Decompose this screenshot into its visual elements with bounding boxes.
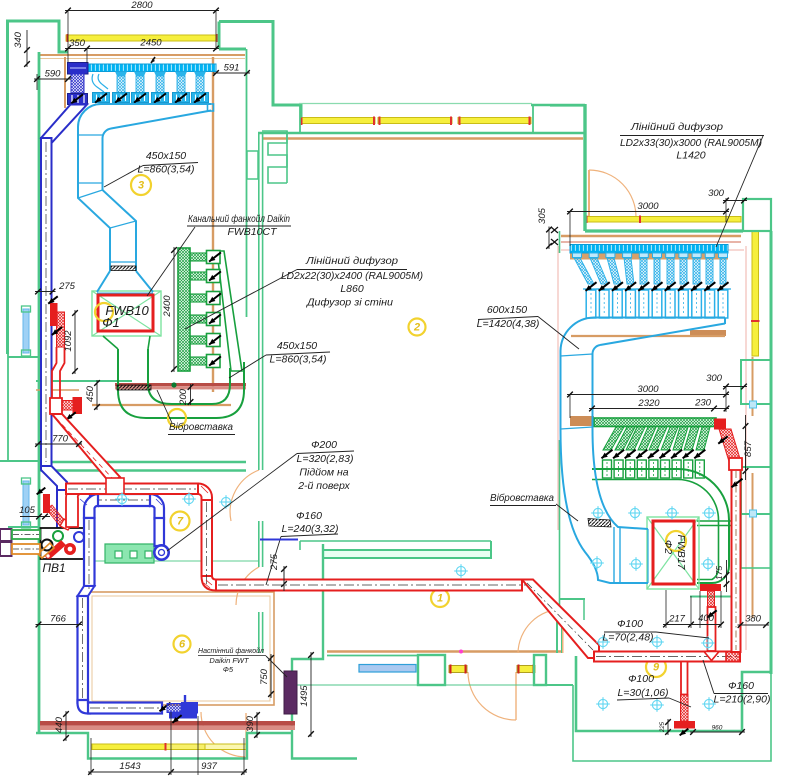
wall corridor vertical x246 bbox=[246, 49, 248, 317]
black flex vibro band on U duct bbox=[117, 385, 151, 390]
svg-text:L=30(1,06): L=30(1,06) bbox=[617, 687, 668, 699]
wall middle room bottom thin bbox=[300, 540, 491, 542]
thin threshold line y685 bbox=[292, 684, 418, 686]
red vertical main right bbox=[732, 469, 741, 652]
svg-text:2320: 2320 bbox=[637, 398, 660, 409]
cyan branch R11 bbox=[719, 253, 728, 258]
tan ceiling line top-left room bbox=[39, 54, 245, 56]
svg-text:LD2x22(30)x2400 (RAL9005M): LD2x22(30)x2400 (RAL9005M) bbox=[281, 270, 423, 282]
fancoil FWB10 unit bbox=[92, 291, 161, 336]
cyan branch R10 bbox=[705, 253, 714, 258]
dim 750 bbox=[270, 655, 272, 697]
svg-text:Підйом на: Підйом на bbox=[299, 467, 348, 479]
door posts on bottom wall bbox=[418, 655, 445, 685]
PV1 green intake duct bbox=[12, 530, 40, 539]
sprinkler symbol (672,513) bbox=[667, 508, 676, 517]
tan block left of right diffuser bbox=[570, 416, 594, 426]
dim 175 bbox=[726, 572, 728, 587]
double partition wall y463/470 bbox=[38, 461, 246, 463]
svg-text:L1420: L1420 bbox=[676, 150, 705, 162]
green comb grille near PV1 bbox=[105, 544, 154, 563]
svg-text:1: 1 bbox=[437, 593, 443, 605]
yellow circle 5 behind FWB10 bbox=[95, 303, 113, 321]
sprinkler symbol (708,564) bbox=[703, 559, 712, 568]
door leaf+arc right room top bbox=[588, 170, 590, 218]
cyan collector plenum bbox=[78, 104, 211, 186]
cyan branch T1 bbox=[93, 93, 110, 103]
sprinkler symbol (122,499) bbox=[117, 494, 126, 503]
svg-text:2: 2 bbox=[413, 322, 420, 334]
green diffuser branch L6 bbox=[190, 357, 207, 365]
cyan big elbow to FWB17 bbox=[561, 429, 649, 583]
svg-text:FWB17: FWB17 bbox=[675, 534, 687, 570]
svg-text:857: 857 bbox=[743, 440, 754, 457]
svg-text:230: 230 bbox=[694, 398, 712, 409]
svg-text:750: 750 bbox=[259, 668, 270, 685]
svg-text:6: 6 bbox=[179, 639, 186, 651]
cyan 600x150 collector plenum bbox=[594, 317, 725, 319]
maroon strip left column bbox=[115, 383, 246, 386]
cyan branch R3 bbox=[606, 253, 615, 258]
green branch R5 bbox=[649, 427, 667, 450]
green linear diffuser bar left (vertical) bbox=[178, 248, 190, 371]
joint hatch on red right elbow bbox=[201, 486, 208, 493]
sprinkler symbol (461,571) bbox=[456, 566, 465, 575]
dim 390 bbox=[256, 712, 258, 738]
svg-text:105: 105 bbox=[19, 505, 36, 516]
svg-text:FWB10CT: FWB10CT bbox=[227, 226, 278, 238]
door arc left column bbox=[230, 470, 259, 521]
svg-text:225: 225 bbox=[660, 721, 666, 733]
dim 440 bbox=[65, 711, 67, 741]
tick on top-left header bar bbox=[151, 57, 155, 63]
tan ceiling line right room bbox=[561, 235, 741, 237]
royal blue loop: horizontal duct bbox=[90, 494, 152, 506]
dim 3000 mid right bbox=[567, 394, 729, 396]
svg-text:Лінійний дифузор: Лінійний дифузор bbox=[630, 121, 723, 133]
tan accent line under window bbox=[68, 64, 216, 66]
dim 960 bbox=[690, 731, 745, 733]
red drop from main into PV1 bbox=[66, 484, 80, 527]
wall left outer x8 bbox=[7, 21, 9, 461]
cyan branch R1 bbox=[573, 253, 582, 258]
svg-text:Ф200: Ф200 bbox=[311, 439, 337, 451]
dim 380 bbox=[738, 624, 770, 626]
PV1 internals bbox=[53, 531, 63, 541]
dim 591 bbox=[213, 72, 250, 74]
door arc bottom room6 bbox=[201, 712, 246, 757]
dim 350+2450 bbox=[65, 48, 219, 50]
svg-text:L=860(3,54): L=860(3,54) bbox=[270, 354, 327, 366]
sprinkler symbol (657,705) bbox=[652, 700, 661, 709]
joint hatch on royal elbows bbox=[80, 499, 87, 505]
red diagonal down-right bbox=[522, 580, 599, 659]
dim 450 bbox=[96, 380, 98, 410]
tan post left of header bbox=[64, 57, 66, 108]
dim 3000 top right bbox=[567, 211, 729, 213]
sprinkler symbol (597,563) bbox=[592, 558, 601, 567]
green branch R1 bbox=[603, 427, 624, 450]
red drop2 pipe+flex+cap bbox=[681, 662, 688, 695]
wall stub y461 bbox=[0, 460, 39, 462]
svg-text:450: 450 bbox=[85, 385, 96, 402]
svg-text:2-й поверх: 2-й поверх bbox=[297, 480, 350, 492]
black x marks left of right diffuser bar bbox=[551, 227, 558, 233]
dim 590 bbox=[34, 78, 71, 80]
svg-text:600x150: 600x150 bbox=[487, 304, 527, 316]
svg-text:450x150: 450x150 bbox=[277, 340, 317, 352]
svg-text:300: 300 bbox=[708, 188, 725, 199]
dim 105 bbox=[20, 516, 50, 518]
royal riser duct + end circle bbox=[155, 518, 165, 546]
royal drop jog bbox=[78, 586, 95, 596]
wall stub door posts bottom bbox=[546, 684, 573, 686]
door leaf+arc bottom of middle room bbox=[562, 609, 564, 653]
navy bottom elbow to PV1 bbox=[41, 466, 67, 497]
green diffuser branch L3 bbox=[190, 294, 207, 302]
green diffuser branch L2 bbox=[190, 272, 207, 280]
sprinkler symbol (636,564) bbox=[631, 559, 640, 568]
green branch R4 bbox=[638, 427, 656, 450]
red flex vertical bbox=[57, 312, 65, 347]
svg-text:Вібровставка: Вібровставка bbox=[169, 421, 233, 433]
svg-text:LD2x33(30)x3000 (RAL9005M): LD2x33(30)x3000 (RAL9005M) bbox=[620, 137, 762, 149]
circle 2 bbox=[409, 319, 426, 336]
pale interior outline right room bbox=[557, 246, 559, 530]
sprinkler symbol (226,502) bbox=[221, 497, 230, 506]
wall left inner x39 bbox=[38, 52, 41, 733]
funnel below FWB10 bbox=[103, 336, 150, 349]
wall middle room top main bbox=[258, 132, 585, 135]
svg-text:Лінійний дифузор: Лінійний дифузор bbox=[305, 255, 398, 267]
svg-text:1543: 1543 bbox=[119, 761, 141, 772]
cyan branch T2 bbox=[115, 72, 127, 77]
wall right room top bbox=[585, 229, 743, 232]
dim 217 bbox=[663, 624, 694, 626]
dim 2320 + 230 bbox=[589, 408, 729, 410]
svg-text:2400: 2400 bbox=[162, 295, 173, 318]
wall boxes right side bbox=[741, 360, 771, 404]
dim 300 top right bbox=[723, 200, 747, 202]
svg-text:7: 7 bbox=[177, 516, 184, 528]
wall top-left block bbox=[8, 21, 69, 354]
red hook to main bbox=[60, 519, 72, 530]
joint hatch on red corner bottom right bbox=[730, 654, 736, 659]
red elbow + flex + cap at 400 bbox=[50, 398, 62, 414]
royal long drop duct lower bbox=[78, 596, 89, 703]
window strip right wall vertical bbox=[752, 231, 759, 356]
svg-text:Ф5: Ф5 bbox=[223, 665, 234, 674]
cyan branch R2 bbox=[589, 253, 598, 258]
wall middle room bottom thick band bbox=[323, 550, 491, 558]
svg-text:217: 217 bbox=[668, 614, 686, 625]
dim 300 second right bbox=[723, 386, 747, 388]
window strip right room top bbox=[585, 217, 741, 223]
green stair/shelf middle room corner bbox=[262, 131, 287, 183]
green branch R7 bbox=[673, 427, 688, 450]
PV1 unit box bbox=[41, 528, 86, 559]
svg-text:Ф1: Ф1 bbox=[102, 315, 120, 330]
royal bottom elbow bbox=[78, 700, 91, 714]
svg-text:1092: 1092 bbox=[63, 330, 74, 352]
svg-text:Вібровставка: Вібровставка bbox=[490, 492, 554, 504]
svg-text:305: 305 bbox=[537, 207, 548, 224]
svg-text:390: 390 bbox=[245, 715, 256, 732]
sprinkler symbol (708,643) bbox=[703, 638, 712, 647]
red radiator lower + flex bbox=[43, 494, 50, 513]
green branch R9 bbox=[696, 427, 710, 450]
cyan branch R8 bbox=[679, 253, 688, 258]
green branch R2 bbox=[615, 427, 635, 450]
wall middle/right top junction vertical bbox=[583, 104, 586, 231]
navy nozzle bbox=[68, 94, 88, 105]
cyan branch T4 bbox=[154, 72, 166, 77]
magenta survey dot bbox=[459, 650, 463, 654]
red elbow right bbox=[198, 484, 212, 501]
cyan branch R5 bbox=[639, 253, 648, 258]
svg-text:L=210(2,90): L=210(2,90) bbox=[714, 694, 771, 706]
svg-text:766: 766 bbox=[50, 614, 67, 625]
threshold line near PV1 bbox=[85, 560, 258, 562]
green diffuser branch L4 bbox=[190, 315, 207, 323]
svg-text:L860: L860 bbox=[340, 283, 364, 295]
tan pilaster column vertical bbox=[212, 57, 214, 392]
black flex band above FWB10 bbox=[111, 266, 136, 271]
dim 857 bbox=[745, 423, 747, 474]
sprinkler symbol (635,513) bbox=[630, 508, 639, 517]
green branch R8 bbox=[684, 427, 699, 450]
purple fancoil FWT unit bbox=[284, 671, 297, 714]
sprinkler symbol (603,642) bbox=[598, 637, 607, 646]
cyan branch T5 bbox=[175, 72, 187, 77]
dim 766 bbox=[36, 624, 83, 626]
yellow circle behind FWB17 bbox=[666, 531, 686, 551]
red long horizontal to right bbox=[216, 580, 522, 591]
wall cabinets/niche rects on corridor wall bbox=[247, 151, 258, 179]
svg-text:591: 591 bbox=[224, 63, 240, 74]
cyan branch R6 bbox=[653, 253, 662, 258]
fancoil FWB17 unit bbox=[647, 517, 699, 589]
wall middle room left vertical bbox=[258, 133, 260, 470]
svg-text:Настінний фанкойл: Настінний фанкойл bbox=[198, 646, 265, 655]
red duct jog bbox=[52, 347, 65, 398]
svg-text:Дифузор зі стіни: Дифузор зі стіни bbox=[306, 297, 393, 309]
dim 1092 bbox=[74, 310, 76, 374]
maroon strip bottom room6 bbox=[40, 721, 295, 726]
svg-text:2450: 2450 bbox=[139, 38, 162, 49]
red main horizontal PV1 level bbox=[66, 484, 198, 495]
green branch R6 bbox=[661, 427, 678, 450]
svg-text:300: 300 bbox=[706, 373, 723, 384]
wall under tan floor line bottom bbox=[327, 655, 418, 657]
navy inlet block bbox=[68, 63, 89, 75]
tan rug rectangle room 6 bbox=[88, 592, 274, 705]
wall right room/middle separator bbox=[559, 231, 561, 253]
svg-text:L=240(3,32): L=240(3,32) bbox=[282, 523, 339, 535]
svg-text:450x150: 450x150 bbox=[146, 150, 186, 162]
sprinkler symbol (603,704) bbox=[598, 699, 607, 708]
dim 340 bbox=[26, 47, 28, 67]
svg-text:937: 937 bbox=[201, 761, 218, 772]
sprinkler symbol (189,499) bbox=[184, 494, 193, 503]
cyan reducer funnel to unit bbox=[97, 271, 153, 292]
svg-text:Daikin FWT: Daikin FWT bbox=[209, 656, 250, 665]
green linear diffuser bar right bbox=[594, 418, 716, 427]
cyan branch R9 bbox=[692, 253, 701, 258]
red FWB17 stub: cap+flex+pipe bbox=[700, 584, 721, 591]
sprinkler symbol (709,704) bbox=[704, 699, 713, 708]
window strip bottom room6 bbox=[92, 744, 166, 750]
window strip middle top (3 segments) bbox=[300, 118, 375, 124]
royal bottom horizontal duct bbox=[88, 703, 162, 714]
svg-text:Ф100: Ф100 bbox=[617, 618, 643, 630]
dim 2800 bbox=[65, 10, 219, 12]
red radiator upper bbox=[50, 303, 58, 326]
svg-text:960: 960 bbox=[712, 725, 723, 732]
sprinkler symbol (657,642) bbox=[652, 637, 661, 646]
door leaf+arc bottom wall bbox=[515, 672, 517, 720]
cyan branch T3 bbox=[134, 72, 146, 77]
tan strip below right cyan diffuser bar bbox=[570, 253, 728, 260]
svg-text:380: 380 bbox=[745, 614, 762, 625]
svg-text:590: 590 bbox=[45, 69, 62, 80]
royal loop left elbow bbox=[84, 494, 98, 518]
window handles bottom middle bbox=[449, 666, 467, 673]
sprinkler symbol (709,513) bbox=[704, 508, 713, 517]
svg-text:3000: 3000 bbox=[637, 384, 659, 395]
svg-text:1495: 1495 bbox=[299, 685, 310, 707]
cyan branch T6 bbox=[194, 72, 206, 77]
green diffuser branch L1 bbox=[190, 253, 207, 261]
red flex top + block at diffuser bbox=[719, 429, 741, 468]
circle 1 (under red duct) bbox=[431, 589, 449, 607]
dim 1495 bbox=[310, 652, 312, 737]
dim 225 bbox=[667, 719, 669, 735]
green collector duct right bbox=[592, 469, 729, 583]
svg-text:440: 440 bbox=[54, 716, 65, 733]
wall stub y527 bbox=[8, 526, 39, 528]
blue wall connectors right bbox=[750, 401, 757, 408]
dim 275 left bbox=[35, 291, 56, 293]
wall box top right corner bbox=[743, 199, 771, 231]
wall room6 right side bbox=[292, 544, 357, 759]
sprinkler symbol (598,513) bbox=[593, 508, 602, 517]
svg-text:L=70(2,48): L=70(2,48) bbox=[602, 632, 653, 644]
navy diagonal duct bbox=[41, 105, 87, 144]
tan strip under left duct loop bbox=[92, 404, 231, 406]
svg-text:L=320(2,83): L=320(2,83) bbox=[297, 453, 354, 465]
wall partition y381 bbox=[36, 380, 132, 382]
tan strip above right green bar bbox=[571, 335, 725, 337]
svg-text:L=1420(4,38): L=1420(4,38) bbox=[477, 318, 540, 330]
red bottom-left elbow bbox=[202, 576, 217, 591]
dark green dot bbox=[171, 382, 176, 387]
svg-text:Канальний фанкойл Daikin: Канальний фанкойл Daikin bbox=[188, 213, 290, 225]
svg-text:Ф160: Ф160 bbox=[296, 510, 322, 522]
tan strips right wall bbox=[752, 357, 754, 416]
royal long drop duct upper bbox=[84, 518, 95, 586]
light blue sill bottom middle bbox=[359, 665, 416, 673]
svg-text:350: 350 bbox=[69, 38, 86, 49]
wall niche right room bottom bbox=[690, 596, 741, 598]
yellow circle partial behind loop bbox=[168, 409, 186, 427]
joint hatch on red bottom elbow bbox=[204, 583, 210, 588]
circle 9 partial (under red duct) bbox=[646, 657, 666, 677]
tan bar right wall upper bbox=[690, 330, 726, 336]
red corner elbow hatched bbox=[726, 652, 740, 662]
red junction tee bbox=[106, 478, 124, 494]
svg-text:ПВ1: ПВ1 bbox=[42, 561, 65, 575]
wall middle room top pieces around window bbox=[531, 104, 585, 107]
green U duct loop bbox=[118, 349, 244, 418]
dim 1543 + 937 bbox=[88, 771, 247, 773]
navy vertical duct bbox=[41, 138, 52, 466]
svg-text:275: 275 bbox=[58, 281, 76, 292]
red long diagonal duct bbox=[52, 414, 120, 483]
svg-text:3000: 3000 bbox=[637, 201, 659, 212]
PV1 orange exhaust duct bbox=[12, 544, 40, 554]
svg-text:Ф2: Ф2 bbox=[662, 540, 674, 554]
cyan branch R7 bbox=[666, 253, 675, 258]
svg-text:2800: 2800 bbox=[130, 0, 153, 11]
tan ceiling line middle room bbox=[262, 137, 583, 139]
walls bottom-left steps bbox=[36, 733, 292, 759]
dim 305 bbox=[548, 227, 550, 250]
svg-text:400: 400 bbox=[698, 613, 715, 624]
dim 200 bbox=[190, 384, 192, 405]
svg-text:340: 340 bbox=[13, 31, 24, 48]
black flex band cyan/FWB17 bbox=[588, 519, 611, 528]
svg-text:770: 770 bbox=[52, 434, 69, 445]
svg-text:Ф100: Ф100 bbox=[628, 673, 654, 685]
wall right outer vertical bbox=[770, 231, 773, 674]
navy flex drop bbox=[71, 74, 84, 93]
light blue window strips left wall bbox=[23, 309, 29, 353]
dim 275 mid bbox=[283, 566, 285, 587]
blue stub line bbox=[260, 539, 298, 541]
circle 6 bbox=[174, 636, 191, 653]
circle 3 bbox=[131, 175, 151, 195]
cyan S-bend bbox=[78, 186, 110, 271]
cyan branch R4 bbox=[623, 253, 632, 258]
circle 7 bbox=[171, 512, 190, 531]
red horizontal bottom right bbox=[594, 652, 740, 662]
door arc middle room left lower bbox=[236, 567, 259, 605]
wall bottom-right outer bbox=[573, 674, 771, 761]
red riser duct down bbox=[202, 500, 213, 576]
PV1 purple collars bbox=[0, 529, 12, 541]
dim 2400 bbox=[173, 247, 175, 372]
tan floor line bottom middle bbox=[327, 650, 562, 653]
svg-text:9: 9 bbox=[653, 662, 660, 674]
dim 770 bbox=[35, 443, 82, 445]
wall bottom-right inner bbox=[576, 656, 771, 731]
wall left jog y357 bbox=[8, 356, 40, 358]
svg-text:200: 200 bbox=[178, 388, 189, 406]
green branch R3 bbox=[626, 427, 645, 450]
supply header bar top-left bbox=[88, 64, 216, 72]
green plenum wedge bbox=[217, 251, 242, 371]
cyan diffuser bar right room bbox=[570, 245, 728, 254]
svg-text:Ф160: Ф160 bbox=[728, 680, 754, 692]
green diffuser branch L5 bbox=[190, 336, 207, 344]
cyan S-branch bbox=[92, 74, 104, 92]
royal loop right elbow bbox=[150, 494, 164, 519]
royal flex + grille bbox=[167, 704, 181, 713]
svg-text:175: 175 bbox=[714, 566, 724, 580]
svg-text:3: 3 bbox=[138, 180, 144, 192]
window strip top-left bbox=[66, 35, 219, 41]
